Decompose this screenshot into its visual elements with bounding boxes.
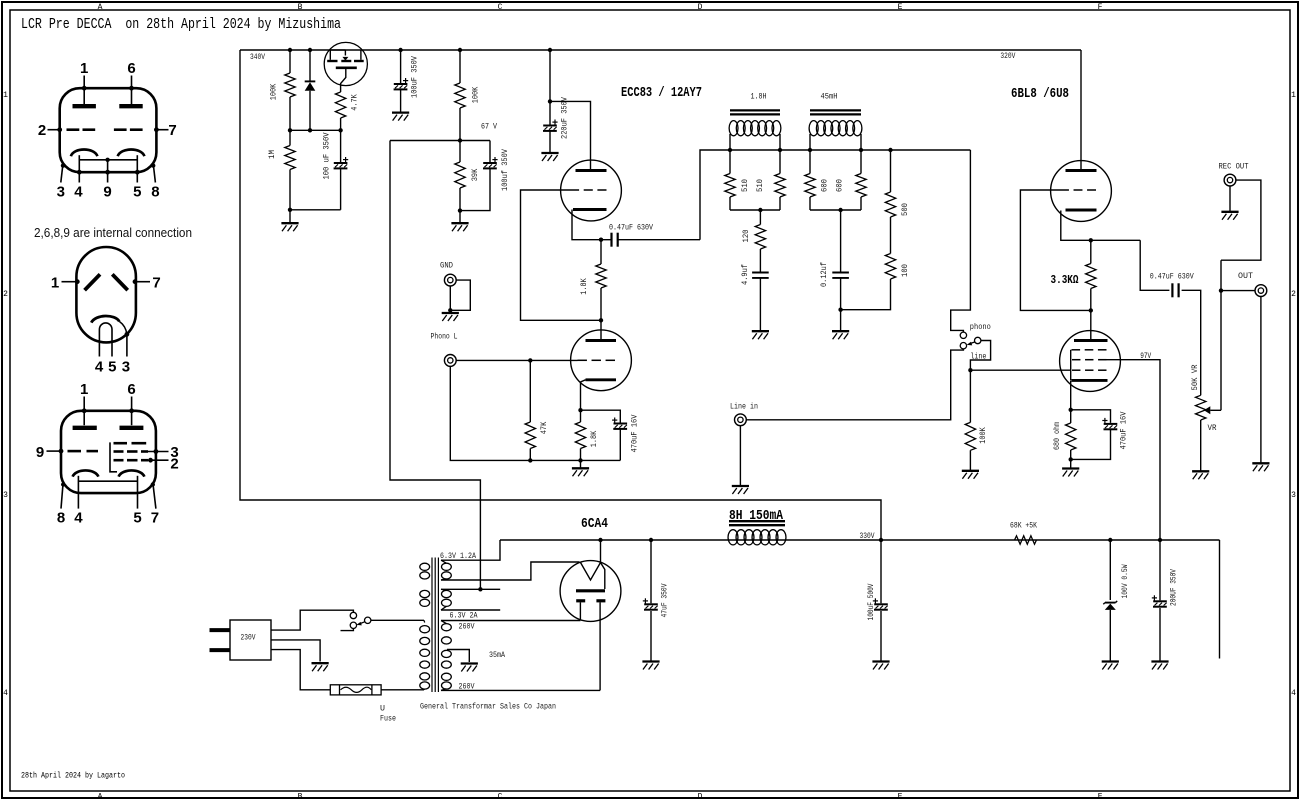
junction dot 330V node [879, 538, 883, 542]
capacitor 100uf 350V heater bias [460, 141, 498, 211]
wire B+ rail 330V [500, 539, 1220, 541]
svg-text:100uF 350V: 100uF 350V [410, 55, 420, 98]
capacitor 200UF 350V [1152, 540, 1167, 661]
svg-text:600: 600 [835, 179, 845, 192]
svg-text:8H 150mA: 8H 150mA [729, 509, 784, 524]
ground 100uF 500V [872, 660, 889, 662]
ground line in [732, 485, 749, 487]
junction dot SRPP node [599, 318, 603, 322]
wire wiper riser to output node [1220, 260, 1222, 410]
junction dot 220uF tap [548, 99, 552, 103]
resistor 600 right [856, 150, 866, 210]
svg-text:REC OUT: REC OUT [1219, 162, 1249, 172]
potentiometer 50K VR [1196, 395, 1206, 470]
6CA4 plate bars [576, 599, 605, 602]
resistor 1.8K V1b cathode [575, 410, 585, 460]
wire AC line to fuse [271, 650, 330, 690]
svg-text:100K: 100K [471, 86, 481, 103]
junction dot 600 bottom [838, 208, 842, 212]
svg-text:Phono L: Phono L [431, 332, 458, 342]
svg-text:510: 510 [755, 179, 765, 192]
tube3 junction dots pins 1,6 [82, 408, 134, 413]
tube socket diagram 2 outline [76, 247, 135, 342]
junction dot 0.12uf bottom [838, 308, 842, 312]
svg-text:3: 3 [1291, 491, 1296, 500]
junction dot 100K screen top [458, 48, 462, 52]
junction dot V2b cathode node [1069, 408, 1073, 412]
tube3 pin 1 lead and plate bar [73, 397, 97, 428]
ground V1b cathode [572, 467, 589, 469]
ground REC OUT [1221, 211, 1238, 213]
wire line in ground stem [739, 426, 741, 485]
tube3 bottom pin leads 8,4,5,7 [61, 482, 156, 508]
AC plug prongs [210, 630, 231, 650]
svg-text:6: 6 [127, 381, 135, 398]
V1b cathode bar [586, 378, 617, 381]
tube1 bottom pin labels [57, 184, 160, 201]
wire V1a grid to V1b plate node [521, 190, 602, 320]
pentode V2b envelope [1060, 331, 1121, 392]
resistor 100K screen feed [455, 50, 465, 141]
inductor 45mH [809, 110, 862, 150]
svg-text:1: 1 [1291, 91, 1296, 100]
wire bias bottom junction [290, 209, 341, 211]
svg-text:9: 9 [36, 444, 44, 461]
junction dot zener node [1108, 538, 1112, 542]
tube1 pin 1 lead and plate bar [73, 76, 96, 107]
ground 100K grid load [962, 470, 979, 472]
wire LCR top bus [730, 149, 970, 151]
svg-text:7: 7 [151, 510, 159, 527]
svg-text:4: 4 [95, 359, 104, 376]
junction dot output node [1219, 288, 1223, 292]
capacitor 47uF 350V [643, 540, 658, 661]
V1b grid dashes [578, 359, 587, 361]
resistor 510 right [775, 150, 785, 210]
wire 330V node to 340V feed [240, 50, 881, 540]
tube socket diagram 1 outline [60, 88, 157, 172]
junction dots LCR top bus [728, 148, 893, 152]
svg-text:ECC83 / 12AY7: ECC83 / 12AY7 [621, 86, 702, 101]
ground 200UF [1151, 660, 1168, 662]
svg-text:F: F [1098, 793, 1103, 800]
svg-text:3.3KΩ: 3.3KΩ [1051, 274, 1079, 287]
capacitor 4.9uf [752, 273, 769, 331]
svg-text:5: 5 [108, 359, 116, 376]
tube3 pin 9 lead and triode grid dashes [47, 449, 99, 454]
tube2 heater loop and pin 4,5 leads [99, 323, 112, 357]
svg-text:phono: phono [970, 322, 991, 332]
wire switch pole to transformer primary [371, 619, 424, 621]
tube2 junction dots pins 1,7 [75, 279, 138, 284]
svg-text:B: B [298, 3, 303, 12]
svg-text:4: 4 [1291, 689, 1296, 698]
tube1 pin 6 lead and plate bar [119, 76, 142, 107]
ground rail bypass [392, 111, 409, 113]
wire fuse to transformer primary [381, 689, 424, 691]
V2a plate bar [1066, 169, 1097, 172]
svg-text:39K: 39K [470, 168, 480, 181]
ground 0.12uf [832, 330, 849, 332]
resistor 39K [455, 141, 465, 211]
wire phono input to V1b grid [456, 359, 577, 361]
triode V1b envelope [571, 330, 632, 391]
junction dot 47uF [649, 538, 653, 542]
wire 6.3V 1.2A top to B+ rail corner [441, 540, 500, 560]
svg-text:2: 2 [38, 122, 46, 139]
tube3 bottom pin labels [57, 510, 159, 527]
inductor 1.8H [729, 110, 781, 150]
tube2 plate bars [85, 274, 128, 290]
tube1 heater structure [79, 155, 137, 172]
svg-text:100uf 350V: 100uf 350V [500, 148, 510, 191]
wire GND terminal loop [450, 280, 470, 310]
mosfet current source Q1 [324, 42, 367, 92]
svg-text:97V: 97V [1140, 351, 1152, 361]
junction dot pentode plate node [1089, 308, 1093, 312]
V1a plate bar [576, 169, 607, 172]
svg-text:General Transformar Sales Co J: General Transformar Sales Co Japan [420, 702, 556, 712]
V2b g3 dashes and strap [1071, 350, 1107, 380]
junction dot V1b cathode node [578, 408, 582, 412]
svg-text:470uF 16V: 470uF 16V [1118, 411, 1128, 450]
capacitor 100 uF 350V bias [334, 130, 349, 210]
svg-text:1M: 1M [267, 150, 277, 159]
svg-text:D: D [698, 793, 703, 800]
resistor 500 [885, 150, 895, 254]
svg-text:8: 8 [151, 184, 159, 201]
svg-text:9: 9 [103, 184, 111, 201]
svg-text:230V: 230V [241, 632, 257, 642]
svg-text:100 uF 350V: 100 uF 350V [322, 132, 332, 180]
resistor 510 left [725, 150, 735, 210]
junction dot 47K bottom [528, 458, 532, 462]
svg-text:OUT: OUT [1238, 271, 1253, 281]
ground zener [1102, 660, 1119, 662]
svg-text:1.8H: 1.8H [751, 92, 767, 102]
transformer primary winding [420, 563, 430, 690]
wire 340V rail [240, 49, 1081, 51]
svg-text:1: 1 [51, 275, 59, 292]
wire B+ rail right end drop [1219, 540, 1221, 659]
junction dot 39K bottom [458, 208, 462, 212]
capacitor 0.47uF 630V coupling 2 [1140, 240, 1201, 395]
svg-text:510: 510 [740, 179, 750, 192]
svg-text:Line in: Line in [730, 402, 758, 412]
resistor 100K grid load [965, 370, 975, 470]
tube1 cathode arcs [71, 150, 144, 157]
jack OUT [1255, 285, 1267, 297]
ground 50K VR [1192, 470, 1209, 472]
junction dot 67V node [458, 138, 462, 142]
capacitor 0.47uF 630V coupling 1 [601, 233, 700, 247]
choke 8H 150mA [728, 521, 786, 545]
svg-text:6.3V 2A: 6.3V 2A [450, 611, 479, 621]
frame column letters top [98, 3, 1103, 12]
ground 47uF [642, 660, 659, 662]
svg-text:600: 600 [820, 179, 830, 192]
capacitor 0.12uf [832, 210, 849, 330]
svg-text:0.12uf: 0.12uf [819, 262, 829, 287]
wire screen to 100V node [1107, 360, 1161, 540]
svg-text:U: U [380, 704, 385, 714]
svg-text:D: D [698, 3, 703, 12]
label U Fuse [380, 704, 396, 724]
svg-text:100K: 100K [978, 427, 988, 444]
svg-text:500: 500 [900, 203, 910, 216]
wire AC live to switch [271, 610, 353, 630]
svg-text:A: A [98, 793, 103, 800]
resistor 3.3K [1086, 240, 1096, 310]
wire 220uF tap to V1a plate [550, 101, 591, 170]
junction dot 47K grid node [528, 358, 532, 362]
junction dot V1b cathode ground [578, 458, 582, 462]
triode V1a envelope [561, 160, 622, 221]
svg-text:100V 0.5W: 100V 0.5W [1120, 564, 1130, 599]
svg-text:47uF 350V: 47uF 350V [659, 583, 669, 618]
resistor 4.7K [335, 92, 345, 130]
wire output node to OUT jack [1221, 290, 1255, 292]
zener diode 100V 0.5W [1103, 540, 1117, 661]
wire 510 bottom [730, 209, 780, 211]
svg-text:3: 3 [57, 184, 65, 201]
junction dots bias node [288, 128, 343, 132]
svg-text:330V: 330V [860, 531, 876, 541]
V2b screen dashes [1072, 359, 1080, 361]
svg-text:6CA4: 6CA4 [581, 517, 608, 532]
ground 220uF [541, 152, 558, 154]
frame row numbers right [1291, 91, 1296, 698]
svg-text:1: 1 [80, 381, 88, 398]
transformer 6.3V 1.2A winding [441, 560, 451, 580]
svg-text:35mA: 35mA [489, 650, 506, 660]
svg-text:67 V: 67 V [481, 122, 498, 132]
svg-text:320V: 320V [1000, 51, 1016, 61]
svg-text:45mH: 45mH [821, 92, 838, 102]
frame row numbers left [3, 91, 8, 698]
resistor 600 left [805, 150, 815, 210]
junction dot 200UF node [1158, 538, 1162, 542]
resistor 68K +5K [1015, 536, 1037, 544]
svg-text:1.8K: 1.8K [589, 430, 599, 447]
wire 6.3V 2A bottom lead [441, 609, 500, 611]
wire V2a cathode lead [1061, 211, 1140, 241]
junction dot V2a cathode node [1089, 238, 1093, 242]
resistor 680 ohm [1066, 410, 1076, 460]
capacitor 100uF 350V rail bypass [394, 50, 409, 112]
svg-text:LCR Pre DECCA on 28th April 2: LCR Pre DECCA on 28th April 2024 by Mizu… [21, 16, 341, 33]
capacitor 100uF 500V [873, 540, 888, 661]
triode V2a envelope [1051, 161, 1112, 222]
svg-text:3: 3 [122, 359, 130, 376]
V1a cathode bar [573, 208, 607, 211]
svg-text:VR: VR [1208, 423, 1217, 433]
svg-text:1: 1 [3, 91, 8, 100]
junction dot heater bias [478, 587, 482, 591]
svg-text:680 ohm: 680 ohm [1052, 422, 1062, 450]
svg-text:4: 4 [74, 184, 83, 201]
V2b control grid dashes [1072, 369, 1080, 371]
resistor 120 [755, 210, 765, 272]
junction dot grid node [968, 368, 972, 372]
svg-text:0.47uF 630V: 0.47uF 630V [609, 223, 654, 233]
wire V1a cathode lead [572, 210, 601, 240]
svg-text:4: 4 [3, 689, 8, 698]
junction dot V1a cathode node [599, 238, 603, 242]
tube1 junction dots pins 2,7 [57, 127, 159, 132]
fuse [330, 685, 381, 695]
tube2 pin 7 lead [135, 281, 150, 283]
ground OUT [1252, 462, 1269, 464]
V2b cathode bar [1072, 379, 1108, 382]
wire 320V rail drop to V2a plate [1080, 50, 1082, 170]
wire OUT ground stem [1260, 297, 1262, 463]
svg-text:5: 5 [133, 184, 141, 201]
wire 600 bottom [810, 209, 861, 211]
svg-text:6: 6 [127, 60, 135, 77]
junction dot rail bypass [398, 48, 402, 52]
svg-text:6BL8 /6U8: 6BL8 /6U8 [1011, 87, 1069, 102]
svg-text:4: 4 [74, 510, 83, 527]
svg-text:200UF 350V: 200UF 350V [1168, 568, 1178, 606]
jack GND terminal [444, 274, 456, 286]
junction dot 220uF rail [548, 48, 552, 52]
resistor 100 [841, 254, 896, 310]
wire bias ground stem [289, 210, 291, 222]
wire V2b ground stem [1070, 459, 1072, 467]
svg-text:0.47uF 630V: 0.47uF 630V [1150, 272, 1195, 282]
wire 6.3V 2A top lead [441, 588, 500, 590]
svg-text:F: F [1098, 3, 1103, 12]
svg-text:100uF 500V: 100uF 500V [866, 583, 876, 621]
svg-text:260V: 260V [459, 622, 476, 632]
V1b plate lead [600, 320, 602, 340]
V2a grid dashes [1060, 189, 1069, 191]
rectifier 6CA4 envelope [560, 561, 621, 622]
wire V1b ground stem [580, 460, 582, 467]
ground 39K [451, 222, 468, 224]
svg-text:2: 2 [1291, 290, 1296, 299]
tube3 cathode arcs [73, 470, 145, 476]
transformer 6.3V 2A winding [441, 589, 451, 610]
tube3 pentode grid box [110, 442, 117, 471]
svg-text:C: C [498, 3, 503, 12]
6CA4 cathode bar [576, 589, 605, 592]
selector switch [960, 332, 981, 349]
junction dot GND terminal [448, 308, 452, 312]
wire bias junction 67V-divider [290, 129, 341, 131]
wire grid node to pentode grid [970, 369, 1071, 371]
ground V2b cathode [1062, 467, 1079, 469]
junction dot 6CA4 cathode [598, 538, 602, 542]
capacitor 470uF 16V V1b bypass [581, 410, 628, 460]
wire selector pole to 100K node [970, 341, 990, 371]
6CA4 heater V filament [581, 563, 601, 581]
power switch [341, 612, 371, 630]
ground 35mA tap [461, 662, 478, 664]
ground AC neutral [312, 662, 329, 664]
wire LCR output to phono contact [951, 150, 971, 332]
svg-text:Fuse: Fuse [380, 714, 396, 724]
V2b plate bar [1074, 339, 1108, 342]
wire 6.3V 1.2A bottom to 6CA4 heater [441, 562, 580, 580]
tube3 heater structure [78, 476, 137, 493]
potentiometer wiper arrow [1204, 406, 1221, 414]
wire line in to selector [747, 349, 964, 420]
wire AC neutral to ground [271, 640, 320, 662]
svg-text:2: 2 [3, 290, 8, 299]
transformer 260V secondary winding [441, 621, 451, 691]
tube1 junction dots pins 1,6 [82, 86, 134, 91]
ground bias divider [281, 222, 298, 224]
svg-text:340V: 340V [250, 52, 266, 62]
V1a grid dashes [570, 189, 579, 191]
V2b plate lead [1090, 310, 1092, 339]
junction dot diode top [308, 48, 312, 52]
svg-text:50K VR: 50K VR [1190, 365, 1200, 391]
svg-text:C: C [498, 793, 503, 800]
svg-text:GND: GND [440, 261, 453, 271]
svg-text:2: 2 [170, 456, 178, 473]
tube3 pentode grid dash rows [114, 443, 169, 462]
capacitor 470uF 16V V2b bypass [1071, 410, 1118, 460]
junction dot bias ground node [288, 208, 292, 212]
ground 4.9uf [752, 330, 769, 332]
svg-text:B: B [298, 793, 303, 800]
tube2 bottom pin labels 4,5,3 [95, 359, 130, 376]
transformer core [432, 558, 438, 693]
tube socket diagram 3 outline [61, 411, 156, 493]
svg-text:47K: 47K [539, 421, 549, 434]
wire REC OUT to output node [1221, 180, 1261, 260]
svg-text:100K: 100K [269, 83, 279, 100]
svg-text:470uF 16V: 470uF 16V [629, 414, 639, 453]
junction dot V2b cathode ground [1069, 457, 1073, 461]
svg-text:100: 100 [900, 264, 910, 277]
wire 67V node [390, 140, 490, 142]
svg-text:28th April 2024 by Lagarto: 28th April 2024 by Lagarto [21, 771, 125, 781]
jack Line in [735, 414, 747, 426]
svg-text:4.7K: 4.7K [350, 94, 360, 111]
V2a cathode bar [1066, 209, 1097, 212]
svg-text:1.8K: 1.8K [579, 278, 589, 295]
svg-text:7: 7 [168, 122, 176, 139]
svg-text:2,6,8,9 are internal connectio: 2,6,8,9 are internal connection [34, 225, 192, 240]
capacitor 220uF 350V plate bypass [543, 50, 558, 152]
resistor 1M [285, 130, 295, 210]
V1b plate bar [586, 339, 617, 342]
wire V2a grid to pentode plate node [1020, 190, 1090, 310]
svg-text:1: 1 [80, 60, 88, 77]
tube2 pin 1 lead [62, 281, 78, 283]
svg-text:120: 120 [741, 230, 751, 243]
wire phono ground bus [450, 367, 620, 461]
svg-text:8: 8 [57, 510, 65, 527]
tube2 cathode arc with pin 3 tail [91, 316, 129, 357]
svg-text:5: 5 [133, 510, 141, 527]
junction dot 100K top [288, 48, 292, 52]
resistor 100K bias upper [285, 50, 295, 130]
svg-text:68K +5K: 68K +5K [1010, 521, 1038, 531]
wire REC OUT ground stem [1229, 186, 1231, 211]
resistor 1.8K V1a cathode [596, 240, 606, 321]
tube3 pin 6 lead and plate bar [120, 397, 144, 428]
wire V2b cathode lead [1070, 380, 1072, 409]
tube1 grid dashed line with pin 2 and 7 leads [48, 129, 169, 131]
wire 39K ground stem [459, 211, 461, 223]
svg-text:220uF 350V: 220uF 350V [560, 96, 570, 139]
ground GND terminal [442, 312, 459, 314]
